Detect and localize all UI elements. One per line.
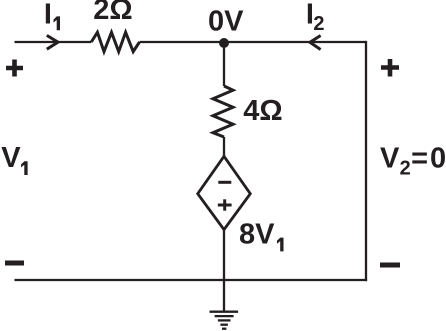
source minus sign [218,181,231,184]
port plus left [6,60,23,77]
resistor R2 4ohm [213,86,233,137]
node 0V junction dot [219,38,229,48]
wire right vertical [365,41,367,281]
ground symbol [210,312,239,329]
arrowhead I1 current direction [47,35,58,49]
wire node to resistor R2 [223,43,225,86]
wire bottom [15,279,368,281]
port minus right [380,263,400,268]
svg-text:V: V [380,142,400,174]
wire ground stem [223,280,225,312]
port plus right [381,59,399,77]
wire resistor to source [223,137,225,157]
svg-text:8V: 8V [239,219,275,251]
port minus left [5,261,24,266]
wire top-right segment [140,41,367,43]
wire top-left segment [15,41,92,43]
svg-text:V: V [1,142,21,174]
svg-text:0: 0 [430,142,446,174]
resistor R1 2ohm [91,32,139,51]
svg-text:2: 2 [313,13,324,35]
svg-text:0V: 0V [208,6,244,38]
svg-text:2Ω: 2Ω [93,0,132,26]
source plus sign [218,199,232,210]
svg-text:=: = [411,142,428,174]
dependent source E1 diamond [198,156,251,229]
wire source to bottom [223,230,225,280]
svg-text:I: I [44,0,52,31]
arrowhead I2 current direction [310,36,321,50]
svg-text:2: 2 [400,158,411,180]
svg-text:4Ω: 4Ω [243,95,282,127]
